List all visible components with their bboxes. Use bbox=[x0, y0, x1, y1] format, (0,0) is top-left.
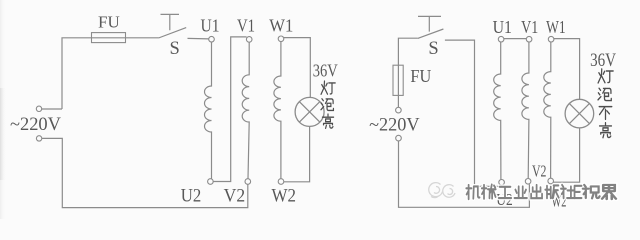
svg-text:U1: U1 bbox=[201, 16, 220, 36]
source terminal R top bbox=[396, 107, 402, 113]
svg-text:36V: 36V bbox=[313, 61, 338, 81]
winding U1-U2 right (coil) bbox=[494, 42, 501, 179]
label 亮 bbox=[322, 114, 333, 128]
wire: source top terminal to rail bbox=[42, 108, 62, 110]
svg-text:W1: W1 bbox=[269, 16, 293, 36]
svg-text:36V: 36V bbox=[590, 51, 617, 71]
label 泡 right bbox=[598, 88, 611, 100]
label 灯 right bbox=[598, 69, 613, 83]
label 亮 right bbox=[600, 123, 612, 138]
svg-text:V2: V2 bbox=[532, 161, 547, 180]
winding W1-W2 (coil) bbox=[274, 42, 281, 179]
terminal W1 bbox=[278, 36, 284, 42]
svg-text:S: S bbox=[169, 39, 179, 59]
lamp EL2 (circle with cross) bbox=[565, 99, 594, 128]
source terminal R bottom bbox=[396, 135, 402, 141]
source terminal L1 bottom bbox=[36, 136, 41, 141]
svg-text:V2: V2 bbox=[224, 185, 246, 206]
winding W1-W2 right (coil) bbox=[544, 42, 551, 178]
terminal W1 right bbox=[548, 36, 554, 42]
wire: W1 to lamp top bbox=[284, 38, 310, 98]
wire: U1-V1 tie bbox=[504, 38, 526, 40]
svg-text:U2: U2 bbox=[181, 185, 202, 206]
wire: bottom source terminal to bottom rail to V2 bbox=[399, 141, 530, 207]
terminal U1 bbox=[209, 36, 215, 42]
watermark text 机械工业出版社E视界 halo bbox=[466, 185, 616, 200]
svg-text:~220V: ~220V bbox=[369, 115, 420, 136]
wire: switch contact down to U2 bbox=[445, 40, 502, 186]
svg-text:FU: FU bbox=[410, 66, 431, 86]
wire: U2 to V1 link bbox=[213, 37, 246, 182]
winding U1-U2 (coil) bbox=[205, 42, 212, 179]
svg-text:~220V: ~220V bbox=[10, 114, 61, 135]
svg-text:W2: W2 bbox=[271, 185, 296, 206]
terminal U1 right bbox=[498, 36, 504, 42]
watermark text 机械工业出版社E视界 ink bbox=[466, 185, 616, 200]
terminal V2 right bbox=[525, 179, 531, 185]
svg-text:U1: U1 bbox=[493, 17, 512, 37]
watermark logo bbox=[429, 183, 455, 198]
terminal W2 bbox=[278, 179, 284, 185]
terminal V1 right bbox=[526, 36, 532, 42]
wire: top rail left segment bbox=[62, 38, 92, 109]
source terminal L1 top bbox=[36, 106, 41, 111]
svg-text:V1: V1 bbox=[521, 17, 538, 37]
terminal V2 bbox=[245, 179, 251, 185]
fuse FU1 body bbox=[92, 33, 126, 43]
wire: lamp bottom to W2 bbox=[284, 127, 310, 182]
terminal U2 right bbox=[499, 180, 505, 186]
switch S2 blade bbox=[418, 29, 444, 38]
wire: source top corner to switch bbox=[398, 38, 417, 65]
svg-text:S: S bbox=[428, 39, 438, 59]
terminal U2 bbox=[208, 179, 214, 185]
wire: lamp bottom to W2 right bbox=[554, 128, 580, 182]
svg-text:FU: FU bbox=[98, 13, 120, 32]
wire: switch to U1 bbox=[188, 37, 209, 40]
terminal W2 right bbox=[548, 178, 554, 184]
wire: source bottom terminal down to bottom rail bbox=[42, 138, 248, 207]
label 泡 bbox=[321, 99, 333, 111]
switch S2 actuator bbox=[418, 16, 441, 31]
winding V1-V2 right (coil) bbox=[522, 42, 529, 178]
wire: fuse to switch bbox=[92, 37, 159, 39]
terminal V1 bbox=[246, 37, 252, 43]
wire: W1 to lamp top right bbox=[554, 39, 580, 100]
winding V1-V2 (coil) bbox=[242, 42, 249, 178]
label 灯 bbox=[321, 81, 335, 94]
lamp EL1 (circle with cross) bbox=[295, 97, 324, 126]
switch S actuator bbox=[161, 14, 180, 30]
wire: fuse to top source terminal bbox=[397, 65, 399, 107]
svg-text:W1: W1 bbox=[546, 17, 566, 37]
svg-text:V1: V1 bbox=[237, 16, 255, 36]
label 不 right bbox=[599, 107, 612, 120]
fuse FU2 body bbox=[393, 65, 403, 95]
switch S blade bbox=[159, 28, 187, 38]
